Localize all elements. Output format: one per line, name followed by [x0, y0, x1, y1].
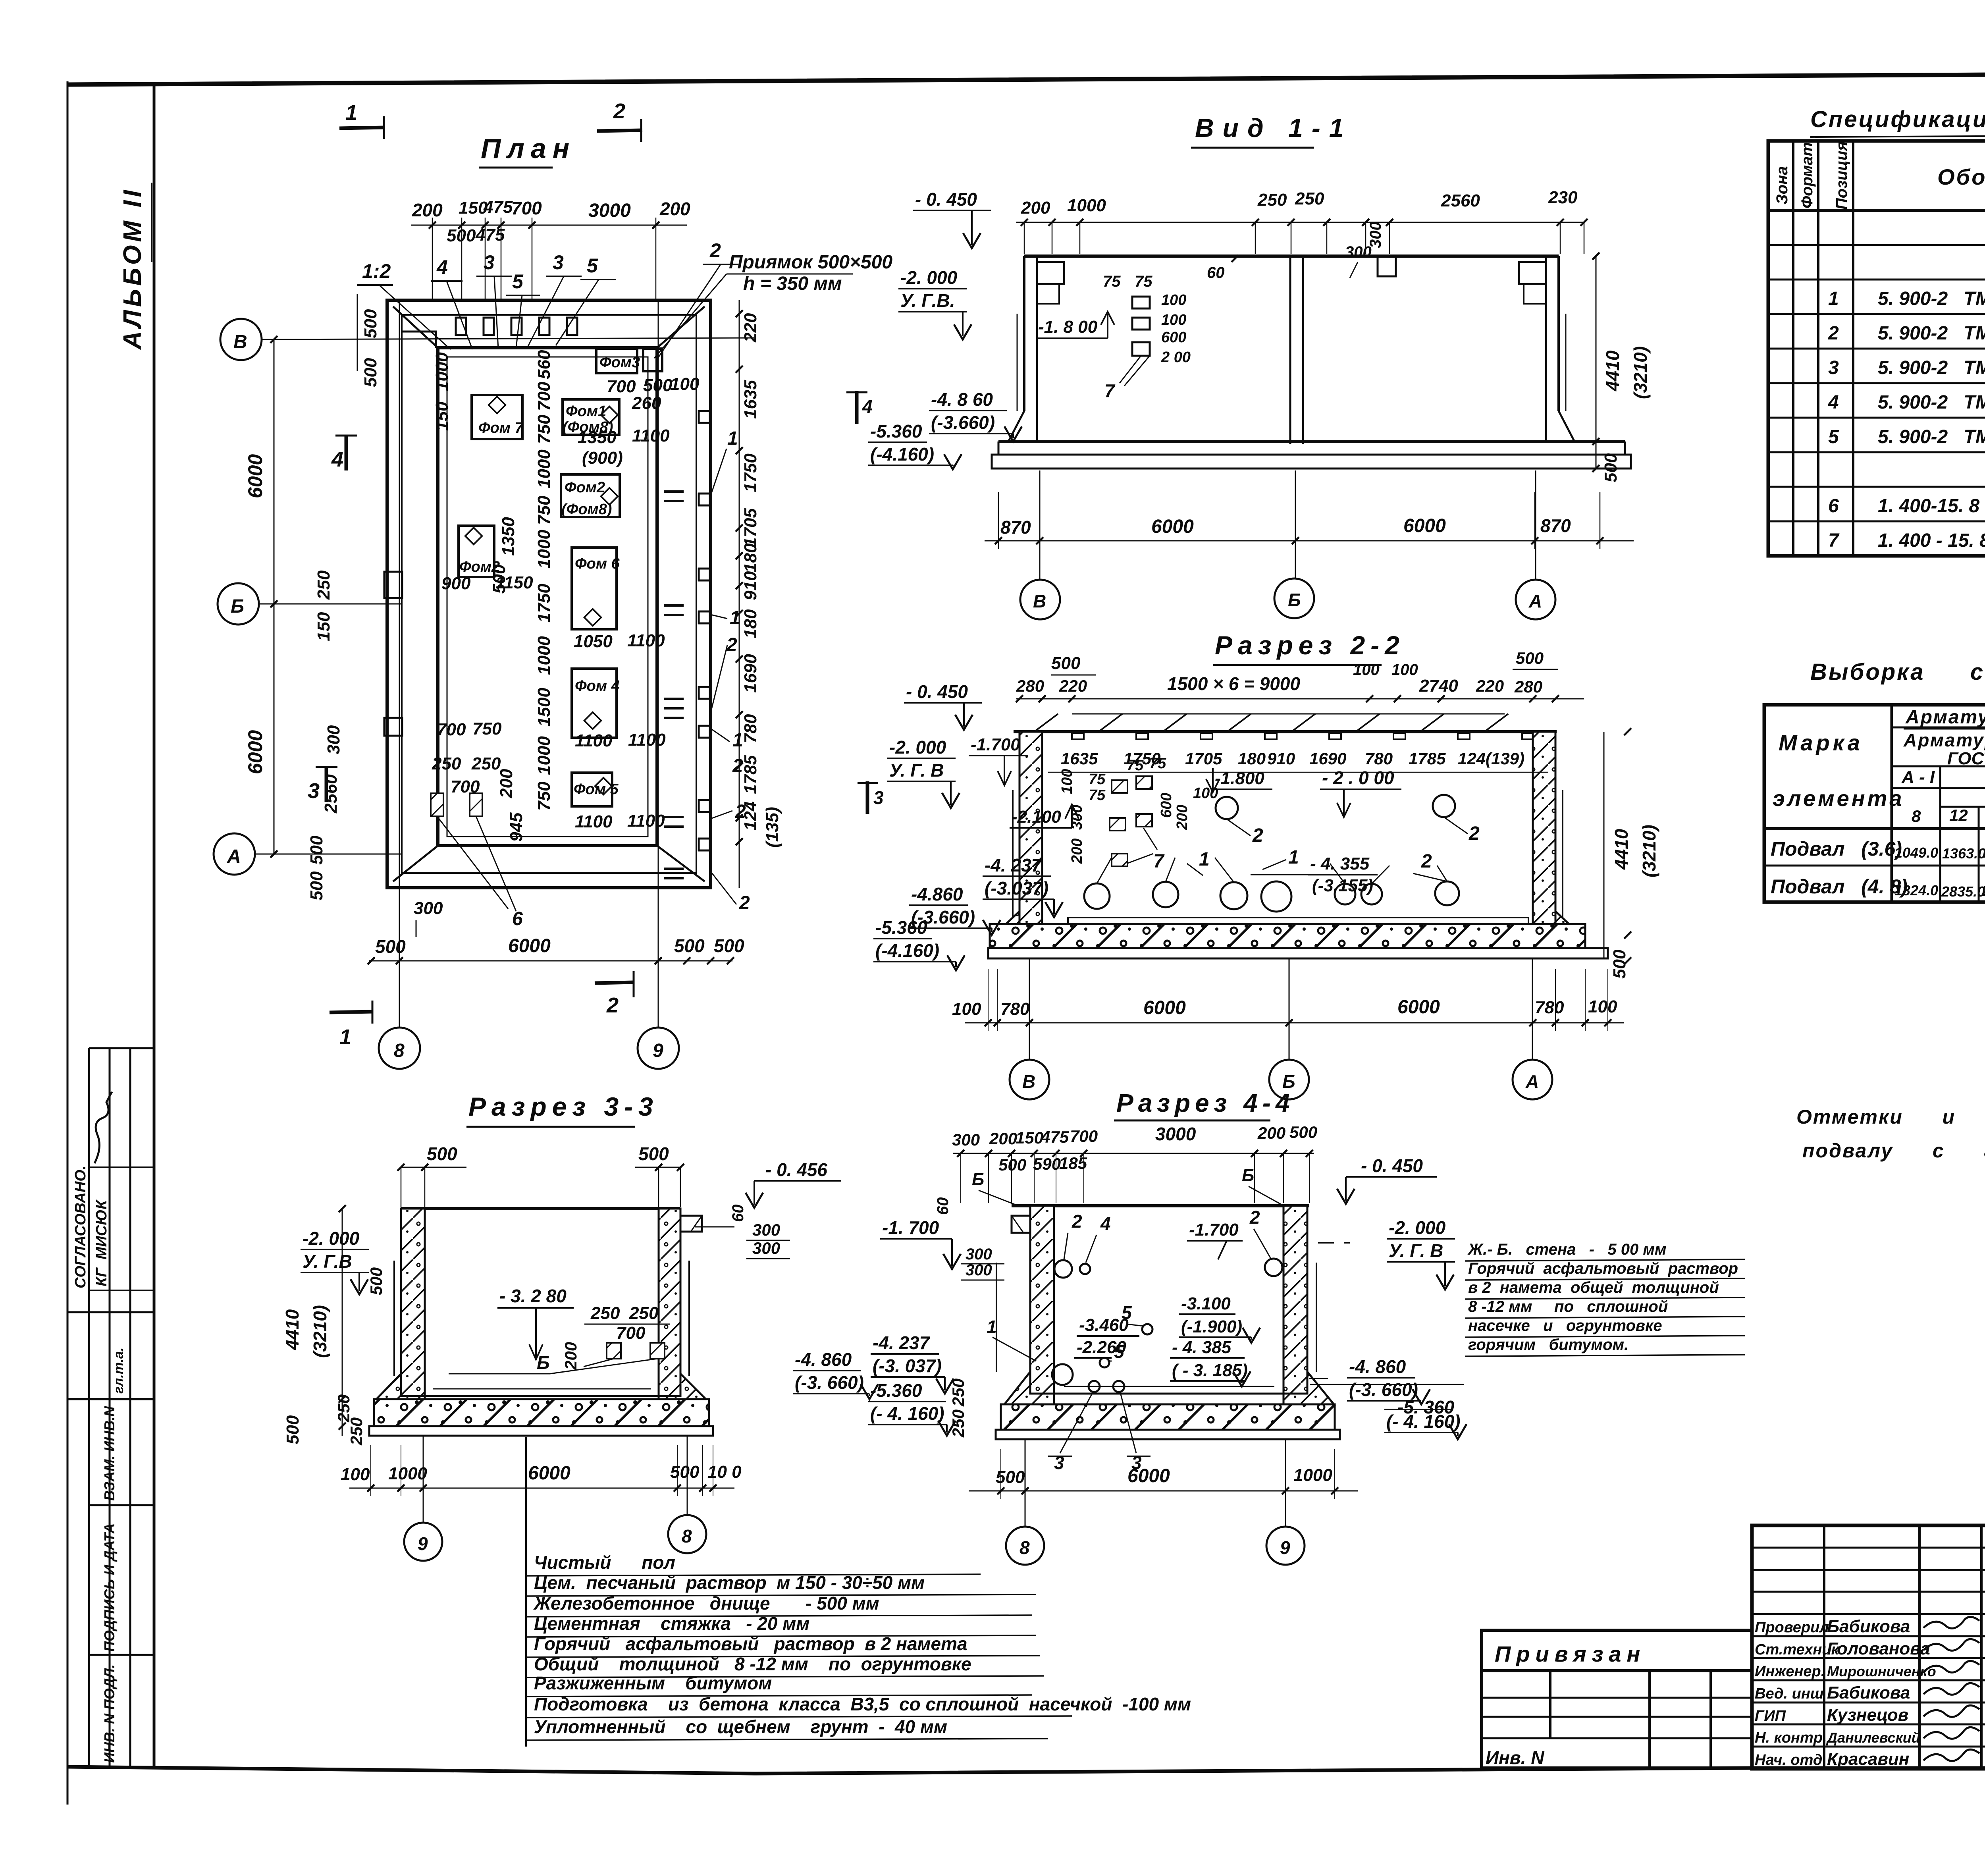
svg-text:475: 475	[1041, 1128, 1069, 1146]
svg-text:100: 100	[1161, 292, 1186, 308]
svg-text:2: 2	[709, 239, 721, 262]
svg-text:-2.100: -2.100	[1012, 807, 1061, 827]
section 3-3 top dims 500	[401, 1167, 466, 1168]
svg-text:(3210): (3210)	[1630, 346, 1651, 399]
svg-text:Кузнецов: Кузнецов	[1827, 1705, 1908, 1725]
section 2-2 base plate	[988, 948, 1608, 958]
svg-text:Фом1: Фом1	[566, 403, 606, 420]
svg-text:Б: Б	[1242, 1166, 1254, 1185]
svg-text:100: 100	[1353, 661, 1380, 679]
section 3-3 base plate	[369, 1426, 713, 1436]
svg-text:5. 900-2 ТМ 91- 0.5: 5. 900-2 ТМ 91- 0.5	[1878, 323, 1985, 344]
svg-text:500: 500	[638, 1143, 669, 1164]
svg-text:(-3. 660): (-3. 660)	[795, 1372, 864, 1393]
svg-text:700: 700	[1070, 1127, 1098, 1145]
svg-text:700: 700	[437, 720, 466, 739]
svg-text:-2. 000: -2. 000	[1389, 1217, 1446, 1238]
plan corner chamfers	[393, 307, 438, 348]
svg-text:(-4.160): (-4.160)	[870, 444, 934, 465]
svg-text:2 00: 2 00	[1161, 349, 1191, 366]
section 2-2 top dims	[1016, 698, 1584, 700]
svg-text:1350: 1350	[578, 428, 617, 447]
section 3-3 bottom dims	[349, 1488, 734, 1489]
svg-text:300: 300	[1345, 243, 1372, 261]
signatures squiggles	[1923, 1617, 1979, 1628]
svg-text:-4. 860: -4. 860	[795, 1349, 852, 1370]
svg-text:1. 400 - 15. 8 1. 120 - 5 5: 1. 400 - 15. 8 1. 120 - 5 5	[1878, 530, 1985, 551]
svg-text:Бабикова: Бабикова	[1827, 1683, 1910, 1702]
svg-text:Проверил: Проверил	[1755, 1619, 1829, 1636]
svg-text:100: 100	[952, 999, 981, 1019]
svg-text:1000: 1000	[1293, 1465, 1332, 1485]
svg-text:1000: 1000	[534, 449, 554, 488]
svg-text:3: 3	[873, 787, 884, 808]
svg-text:200: 200	[412, 200, 443, 220]
svg-text:СОГЛАСОВАНО.: СОГЛАСОВАНО.	[72, 1166, 89, 1288]
svg-text:7: 7	[1153, 851, 1165, 872]
svg-text:200: 200	[1257, 1124, 1285, 1142]
svg-text:500: 500	[1289, 1123, 1317, 1141]
svg-text:1049.0: 1049.0	[1894, 844, 1938, 861]
svg-text:1000: 1000	[1067, 196, 1106, 215]
svg-text:600: 600	[1158, 793, 1175, 818]
svg-text:780: 780	[1365, 749, 1393, 768]
svg-text:(-3.037): (-3.037)	[985, 878, 1048, 898]
svg-text:75: 75	[1089, 787, 1106, 804]
svg-text:(139): (139)	[1486, 749, 1524, 768]
svg-text:1635: 1635	[741, 380, 760, 419]
svg-text:А: А	[1525, 1071, 1539, 1092]
svg-text:1690: 1690	[1309, 749, 1346, 768]
svg-text:500: 500	[307, 871, 326, 900]
svg-text:1500 × 6 = 9000: 1500 × 6 = 9000	[1167, 673, 1301, 694]
plan room outline	[438, 348, 657, 846]
svg-text:60: 60	[729, 1205, 747, 1222]
svg-text:Цем. песчаный раствор м 150: Цем. песчаный раствор м 150 - 30÷50 мм	[534, 1572, 925, 1593]
svg-text:В: В	[1033, 591, 1046, 611]
svg-text:Вид 1-1: Вид 1-1	[1195, 113, 1353, 143]
section mark 1 bottom	[330, 1012, 373, 1012]
svg-text:5. 900-2 ТМ 91- 00: 5. 900-2 ТМ 91- 00	[1878, 426, 1985, 447]
svg-text:4: 4	[862, 396, 873, 417]
axis circle B plan	[220, 319, 262, 360]
section 2-2 upper pipe circles	[1216, 797, 1238, 819]
privyazan box	[1482, 1630, 1752, 1671]
svg-text:60: 60	[934, 1197, 952, 1215]
svg-text:в 2 намета общей толщиной: в 2 намета общей толщиной	[1468, 1279, 1719, 1296]
section 2-2 formwork notches	[1072, 733, 1084, 739]
view 1-1 top notch	[1378, 256, 1396, 276]
svg-text:500: 500	[670, 1462, 700, 1482]
svg-text:h = 350 мм: h = 350 мм	[743, 273, 842, 294]
svg-text:9: 9	[653, 1040, 663, 1061]
svg-text:Подвал (3.6): Подвал (3.6)	[1771, 838, 1902, 860]
svg-text:Фом 6: Фом 6	[575, 555, 620, 572]
section 2-2 interior floor	[1042, 923, 1533, 925]
svg-text:2560: 2560	[1441, 191, 1480, 210]
svg-text:- 4. 385: - 4. 385	[1172, 1338, 1231, 1357]
equipment Fom6	[572, 548, 617, 629]
svg-text:600: 600	[1161, 329, 1186, 346]
sheet outer paper edge left	[67, 81, 69, 1805]
svg-text:- 0. 456: - 0. 456	[765, 1159, 827, 1180]
svg-text:Общий толщиной 8 -12 мм: Общий толщиной 8 -12 мм по огрунтовке	[534, 1654, 971, 1674]
svg-text:500: 500	[361, 309, 380, 338]
svg-text:10 0: 10 0	[707, 1462, 742, 1482]
svg-text:Разрез 4-4: Разрез 4-4	[1116, 1089, 1295, 1117]
svg-text:150: 150	[1016, 1128, 1043, 1147]
svg-text:1000: 1000	[432, 352, 452, 391]
svg-text:700: 700	[616, 1323, 646, 1343]
svg-text:(-3.155): (-3.155)	[1312, 876, 1373, 895]
plan left wall protrusion near B axis	[384, 572, 402, 598]
svg-text:200: 200	[1174, 805, 1191, 830]
svg-text:Арматурная сталь: Арматурная сталь	[1903, 730, 1985, 750]
svg-text:В: В	[233, 332, 247, 353]
svg-text:100: 100	[341, 1465, 370, 1484]
section 3-3 ground lines	[393, 1261, 395, 1376]
svg-text:7: 7	[1828, 530, 1840, 551]
svg-text:Разрез 2-2: Разрез 2-2	[1215, 630, 1405, 660]
svg-text:2: 2	[1072, 1211, 1082, 1232]
section 2-2 left wall hatched	[1019, 732, 1042, 924]
top wall embed details	[456, 318, 466, 335]
svg-text:750: 750	[472, 719, 502, 738]
svg-text:180: 180	[1238, 749, 1266, 768]
equipment Fom4	[572, 669, 617, 738]
svg-text:подвалу с глубиной 3. 60: подвалу с глубиной 3. 600 м	[1802, 1139, 1985, 1162]
axis circle A plan	[214, 833, 255, 875]
svg-text:60: 60	[1207, 264, 1225, 281]
svg-text:500: 500	[375, 936, 406, 957]
floor structure list	[525, 1437, 527, 1747]
svg-text:1100: 1100	[632, 426, 670, 445]
svg-text:6: 6	[1828, 496, 1839, 517]
svg-text:(Фом8): (Фом8)	[561, 501, 612, 518]
section mark 4 left	[345, 435, 348, 470]
svg-text:500: 500	[447, 226, 476, 245]
svg-text:-2. 000: -2. 000	[889, 737, 946, 758]
svg-text:- 0. 450: - 0. 450	[915, 189, 977, 210]
svg-text:4: 4	[436, 256, 448, 278]
svg-text:Арматурные изделия: Арматурные изделия	[1905, 707, 1985, 728]
svg-text:Позиция: Позиция	[1833, 141, 1850, 210]
view 1-1 right wall	[1557, 256, 1560, 411]
svg-text:75: 75	[1103, 273, 1121, 290]
svg-text:500: 500	[714, 935, 744, 956]
svg-text:гл.т.а.: гл.т.а.	[111, 1348, 126, 1394]
svg-text:Н. контр.: Н. контр.	[1755, 1729, 1827, 1746]
svg-text:220: 220	[741, 313, 760, 343]
svg-text:1324.0: 1324.0	[1894, 882, 1938, 898]
svg-text:Подвал (4. 8): Подвал (4. 8)	[1771, 875, 1908, 898]
svg-text:280: 280	[1514, 677, 1542, 696]
svg-text:1000: 1000	[534, 636, 554, 675]
left margin signature squiggle	[94, 1092, 112, 1163]
svg-text:780: 780	[1000, 999, 1030, 1019]
svg-text:870: 870	[1000, 517, 1031, 538]
svg-text:-1.800: -1.800	[1215, 769, 1264, 788]
equipment Fom2(Fom8)	[561, 474, 620, 517]
svg-text:1:2: 1:2	[362, 260, 391, 282]
svg-text:Отметки и размеры в ск: Отметки и размеры в скобках относятся к	[1796, 1106, 1985, 1128]
section 4-4 wall sleeves	[1054, 1260, 1072, 1278]
svg-text:Фом2: Фом2	[565, 479, 605, 496]
section 3-3 right top ledge	[680, 1216, 702, 1232]
section 2-2 top slab line	[1014, 730, 1557, 733]
svg-text:500: 500	[1051, 654, 1081, 673]
svg-text:750: 750	[534, 496, 554, 525]
svg-text:-5.360: -5.360	[875, 917, 927, 938]
svg-text:3: 3	[553, 251, 564, 274]
svg-text:870: 870	[1540, 515, 1571, 536]
view 1-1 top dimension chain	[1016, 222, 1584, 223]
svg-text:1690: 1690	[741, 654, 760, 693]
svg-text:Фом 5: Фом 5	[574, 781, 619, 798]
svg-text:Б: Б	[231, 596, 244, 617]
section 2-2 axis circles	[1029, 958, 1030, 1060]
svg-text:200: 200	[989, 1129, 1017, 1148]
svg-text:(3210): (3210)	[1639, 825, 1659, 877]
svg-text:7: 7	[1104, 380, 1116, 401]
svg-text:1705: 1705	[1185, 749, 1222, 768]
frame left inner border	[153, 83, 156, 1769]
plan left outer dimension chain 6000x2	[274, 339, 275, 854]
svg-text:75: 75	[1089, 771, 1106, 788]
svg-text:1785: 1785	[1409, 749, 1446, 768]
svg-text:1750: 1750	[1124, 749, 1160, 768]
axis 8 line and circle	[399, 300, 400, 888]
svg-text:4410: 4410	[1602, 350, 1623, 391]
svg-text:500: 500	[1610, 949, 1629, 979]
svg-text:300: 300	[752, 1239, 780, 1257]
section mark 3 left	[325, 766, 328, 802]
svg-text:Марка: Марка	[1779, 730, 1863, 755]
view 1-1 pipe gland stack	[1132, 297, 1150, 308]
section 2-2 inner top dim chain	[1048, 772, 1548, 773]
svg-text:230: 230	[1548, 188, 1578, 207]
view 1-1 section flag 4	[855, 391, 859, 424]
svg-text:Фом3: Фом3	[599, 354, 640, 371]
section 4-4 base slab hatched	[1001, 1404, 1335, 1430]
svg-text:- 3. 2 80: - 3. 2 80	[499, 1286, 567, 1306]
svg-text:ИНВ. N ПОДЛ.: ИНВ. N ПОДЛ.	[101, 1664, 118, 1763]
svg-text:780: 780	[1535, 998, 1564, 1017]
svg-text:700: 700	[534, 382, 554, 411]
section 4-4 top dim rows	[953, 1153, 1314, 1154]
view 1-1 top slab line	[1024, 255, 1559, 258]
svg-text:750: 750	[534, 415, 554, 444]
title block signature table	[1752, 1525, 1985, 1769]
svg-text:Голованова: Голованова	[1827, 1639, 1930, 1658]
svg-text:-4. 237: -4. 237	[873, 1332, 931, 1353]
svg-text:Зона: Зона	[1773, 166, 1791, 204]
svg-text:590: 590	[1033, 1155, 1061, 1173]
svg-text:124: 124	[1458, 749, 1486, 768]
svg-text:-1.700: -1.700	[1189, 1220, 1239, 1240]
svg-text:ВЗАМ. ИНВ.N: ВЗАМ. ИНВ.N	[101, 1406, 118, 1501]
svg-text:300: 300	[324, 725, 343, 754]
svg-text:2: 2	[1421, 851, 1432, 872]
svg-text:ГОСТ 5781- 82: ГОСТ 5781- 82	[1947, 749, 1985, 768]
svg-text:8 -12 мм по сплошной: 8 -12 мм по сплошной	[1468, 1298, 1668, 1315]
view 1-1 base slab	[998, 440, 1625, 443]
svg-text:2: 2	[1249, 1207, 1260, 1228]
svg-text:250: 250	[949, 1409, 967, 1438]
svg-text:500: 500	[996, 1467, 1025, 1487]
svg-text:250: 250	[432, 754, 461, 773]
svg-text:1: 1	[339, 1025, 351, 1049]
svg-text:300: 300	[966, 1261, 992, 1279]
svg-text:1: 1	[1199, 849, 1210, 870]
svg-text:- 0. 450: - 0. 450	[1361, 1155, 1423, 1176]
svg-text:6000: 6000	[1403, 515, 1446, 536]
svg-text:-1.700: -1.700	[971, 735, 1020, 754]
svg-text:250: 250	[949, 1379, 967, 1407]
svg-text:8: 8	[1912, 807, 1921, 825]
svg-text:475: 475	[483, 197, 513, 217]
svg-text:4410: 4410	[1611, 829, 1632, 870]
svg-text:Горячий асфальтовый раствор: Горячий асфальтовый раствор	[1468, 1260, 1738, 1277]
svg-text:75: 75	[1135, 273, 1152, 290]
svg-text:-1. 8 00: -1. 8 00	[1038, 317, 1098, 337]
svg-text:горячим битумом.: горячим битумом.	[1468, 1336, 1628, 1353]
svg-text:А: А	[1528, 591, 1542, 611]
svg-text:1350: 1350	[499, 517, 518, 556]
section 2-2 ground lines	[1012, 790, 1014, 917]
svg-text:185: 185	[1059, 1154, 1087, 1172]
svg-text:Спецификация изделий на оди: Спецификация изделий на один элемент	[1810, 106, 1985, 132]
section mark 1 top	[339, 127, 385, 128]
svg-text:200: 200	[1021, 198, 1050, 218]
svg-text:6000: 6000	[1127, 1465, 1170, 1487]
specification table grid	[1768, 141, 1985, 556]
section 4-4 bottom dims	[969, 1490, 1358, 1492]
svg-text:5. 900-2 ТМ 91- 02: 5. 900-2 ТМ 91- 02	[1878, 392, 1985, 413]
section 4-4 leader to text	[1310, 1384, 1464, 1385]
svg-text:Красавин: Красавин	[1827, 1749, 1909, 1769]
svg-text:6000: 6000	[1397, 997, 1440, 1018]
svg-text:2: 2	[606, 993, 619, 1017]
svg-text:300: 300	[966, 1246, 992, 1263]
svg-text:Б: Б	[1288, 590, 1301, 610]
section 2-2 lower pipe circles	[1084, 883, 1110, 909]
section 2-2 right wall hatched	[1533, 732, 1555, 924]
svg-text:250: 250	[629, 1303, 659, 1323]
svg-text:(135): (135)	[763, 807, 782, 848]
svg-text:3: 3	[1828, 357, 1839, 378]
axis 9 line and circle	[658, 300, 659, 888]
section 4-4 interior floor	[1054, 1393, 1284, 1395]
svg-text:-5.360: -5.360	[870, 421, 922, 442]
svg-text:180: 180	[741, 543, 760, 573]
svg-text:200: 200	[659, 199, 690, 219]
svg-text:Б: Б	[972, 1170, 984, 1189]
svg-text:-4. 8 60: -4. 8 60	[931, 389, 993, 410]
svg-text:(- 4. 160): (- 4. 160)	[870, 1403, 944, 1424]
svg-text:5: 5	[512, 270, 524, 293]
svg-text:А - I: А - I	[1901, 767, 1935, 787]
svg-text:700: 700	[607, 377, 636, 396]
svg-text:500: 500	[643, 376, 673, 395]
svg-text:Привязан: Привязан	[1495, 1641, 1646, 1666]
svg-text:(-1.900): (-1.900)	[1181, 1317, 1242, 1336]
svg-text:250: 250	[590, 1303, 620, 1323]
svg-text:945: 945	[507, 812, 526, 842]
pit square top right	[643, 349, 662, 371]
svg-text:-2. 000: -2. 000	[303, 1228, 360, 1249]
svg-text:1. 400-15. 8 1. 13 0 - 19: 1. 400-15. 8 1. 13 0 - 19	[1878, 496, 1985, 517]
svg-text:300: 300	[952, 1130, 980, 1149]
svg-text:150: 150	[432, 401, 452, 431]
svg-text:500: 500	[1601, 453, 1621, 482]
svg-text:4410: 4410	[282, 1309, 303, 1350]
section 4-4 ground lines	[996, 1263, 997, 1372]
svg-text:300: 300	[752, 1220, 780, 1239]
svg-text:1635: 1635	[1061, 749, 1098, 768]
svg-text:5. 900-2 ТМ91- 06: 5. 900-2 ТМ91- 06	[1878, 288, 1985, 309]
plan outer slab edge	[387, 300, 711, 888]
svg-text:2195.0: 2195.0	[1981, 883, 1985, 899]
section 4-4 axis circles	[1025, 1439, 1026, 1527]
svg-text:Цементная стяжка - 20 мм: Цементная стяжка - 20 мм	[534, 1613, 809, 1634]
section 4-4 top line	[1012, 1204, 1309, 1207]
section 4-4 left wall hatched	[1030, 1206, 1054, 1394]
svg-text:500: 500	[307, 835, 326, 865]
plan right outer dimension chain	[739, 300, 740, 888]
svg-text:1: 1	[345, 101, 357, 125]
svg-text:1100: 1100	[628, 730, 666, 750]
svg-text:Данилевский: Данилевский	[1826, 1729, 1920, 1746]
section 3-3 right wall hatched	[659, 1209, 680, 1396]
svg-text:9: 9	[418, 1533, 428, 1554]
section 3-3 top line	[401, 1207, 680, 1210]
svg-text:200: 200	[561, 1342, 580, 1370]
frame top border	[67, 72, 1985, 85]
svg-text:1100: 1100	[575, 731, 613, 750]
svg-text:475: 475	[475, 225, 505, 245]
svg-text:Ж.- Б. стена - 5 00 мм: Ж.- Б. стена - 5 00 мм	[1467, 1241, 1667, 1258]
svg-text:Б: Б	[537, 1352, 550, 1373]
equipment Fom3	[596, 349, 637, 373]
view 1-1 left wall	[1023, 256, 1025, 411]
section 2-2 base slab hatched	[990, 924, 1585, 948]
svg-text:Чистый пол: Чистый пол	[534, 1552, 675, 1573]
svg-text:200: 200	[1069, 839, 1085, 864]
svg-text:6000: 6000	[244, 454, 266, 498]
anchor plates outer right wall	[699, 411, 710, 423]
svg-text:8: 8	[682, 1526, 692, 1546]
svg-text:2835.0: 2835.0	[1941, 883, 1985, 900]
plan left inner dims	[357, 294, 358, 371]
svg-text:1: 1	[1288, 847, 1299, 868]
svg-text:-1. 700: -1. 700	[882, 1217, 939, 1238]
plan outer wall face	[402, 315, 696, 873]
svg-text:4: 4	[1828, 392, 1839, 413]
svg-text:Приямок 500×500: Приямок 500×500	[729, 252, 892, 273]
svg-text:260: 260	[632, 393, 661, 413]
section 4-4 base plate	[996, 1430, 1340, 1439]
section mark 2 top	[597, 130, 642, 131]
plan top dimension chain	[411, 225, 687, 226]
svg-text:5: 5	[1828, 426, 1839, 447]
svg-text:100: 100	[1588, 997, 1617, 1016]
view 1-1 middle wall	[1289, 258, 1291, 444]
equipment Fom1(Fom8)	[563, 399, 619, 435]
svg-text:3000: 3000	[588, 200, 631, 221]
svg-text:2: 2	[1828, 323, 1839, 344]
axis circle Б plan	[218, 583, 259, 625]
